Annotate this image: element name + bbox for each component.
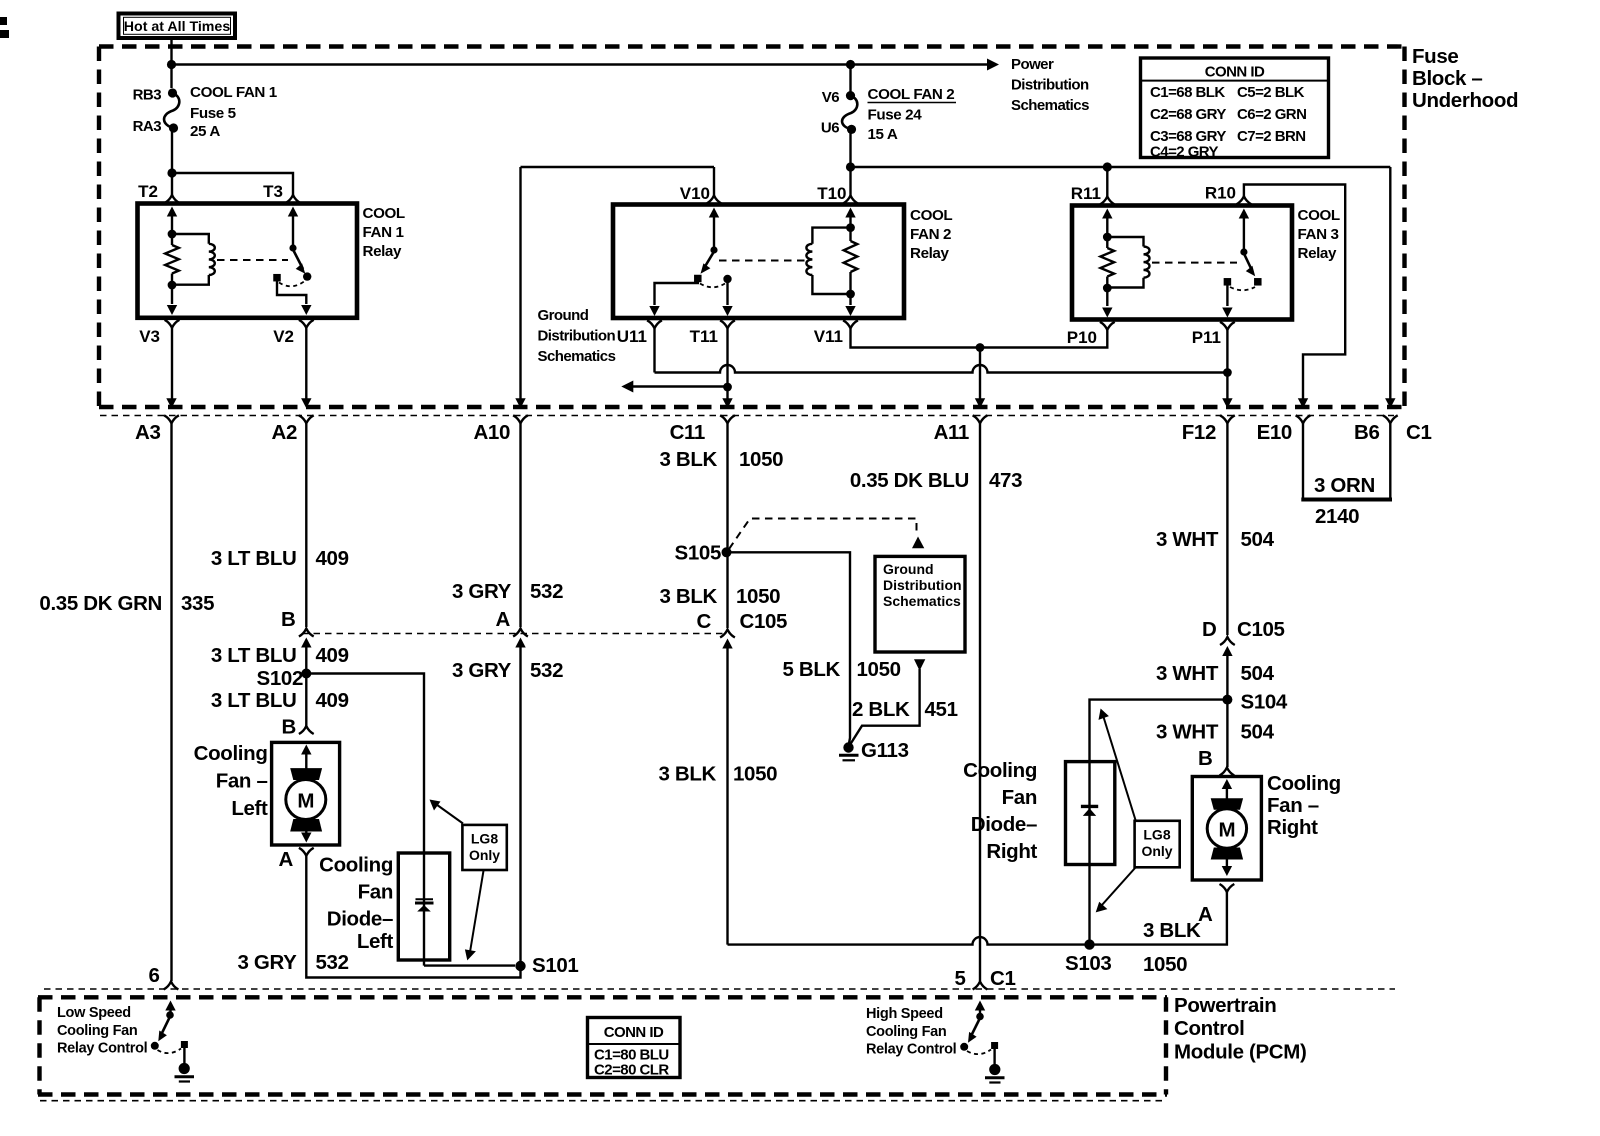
svg-text:Fan: Fan <box>358 881 393 904</box>
svg-text:1050: 1050 <box>1143 953 1187 976</box>
svg-text:3 GRY: 3 GRY <box>452 659 512 682</box>
svg-text:Ground: Ground <box>538 307 589 324</box>
svg-text:E10: E10 <box>1257 421 1292 444</box>
relay 1 switch NC contact <box>273 274 281 282</box>
svg-text:5 BLK: 5 BLK <box>783 658 841 681</box>
svg-text:B: B <box>281 608 295 631</box>
wire: A3 to PCM pin 6 (0.35 DK GRN 335) <box>170 423 172 981</box>
wire: to T10 <box>849 167 851 196</box>
wire: diode left to splice S101 <box>424 964 515 966</box>
harness thin dashed line below PCM <box>40 1100 1167 1102</box>
svg-text:C105: C105 <box>740 610 788 633</box>
arrow: to Power Distribution Schematics <box>987 59 999 71</box>
svg-text:Right: Right <box>1267 816 1318 839</box>
relay 2 output to T11 <box>726 281 728 305</box>
connector C105 dashed line <box>302 633 726 635</box>
svg-text:R11: R11 <box>1071 184 1101 203</box>
svg-text:3 BLK: 3 BLK <box>659 763 717 786</box>
pin A2 connector cup <box>299 415 314 423</box>
harness thin dashed line above PCM <box>44 988 1395 990</box>
svg-text:1050: 1050 <box>857 658 901 681</box>
svg-text:3 GRY: 3 GRY <box>237 951 297 974</box>
motor M1 armature circle <box>286 780 326 820</box>
svg-text:V11: V11 <box>814 327 843 346</box>
fan left motor arrow out <box>301 833 311 843</box>
svg-text:504: 504 <box>1241 528 1275 551</box>
svg-text:S103: S103 <box>1065 952 1111 975</box>
ground symbol bars (low speed) <box>175 1075 195 1078</box>
PCM pin 6 arrow <box>165 1001 175 1011</box>
svg-text:V10: V10 <box>680 184 710 203</box>
svg-text:15 A: 15 A <box>868 126 898 143</box>
svg-text:Underhood: Underhood <box>1412 89 1518 112</box>
wire: S102 branch through diode left <box>306 674 424 966</box>
wire: T11 down to pin C11 <box>726 328 728 404</box>
pin T11 connector cup <box>720 320 735 328</box>
svg-text:RB3: RB3 <box>133 87 162 104</box>
wire: U11-P11 ground rail with hops <box>655 365 1228 373</box>
svg-text:504: 504 <box>1241 662 1275 685</box>
pin V11 connector cup <box>843 320 858 328</box>
motor M2 armature circle <box>1207 809 1246 848</box>
fan right pin B connector cup <box>1220 768 1235 776</box>
svg-text:B: B <box>282 716 296 739</box>
relay 3 output to P11 <box>1226 284 1228 306</box>
svg-text:C1: C1 <box>990 967 1016 990</box>
low speed switch pivot <box>166 1011 174 1019</box>
wire: C105-D to splice S104 and fan right (3 WHT 504) <box>1226 654 1228 768</box>
svg-text:Cooling Fan: Cooling Fan <box>57 1023 137 1039</box>
svg-text:C3=68 GRY: C3=68 GRY <box>1150 128 1226 145</box>
svg-text:FAN 3: FAN 3 <box>1298 226 1339 243</box>
svg-text:Relay: Relay <box>910 245 949 262</box>
relay 2 coil winding loop <box>812 228 850 244</box>
svg-text:532: 532 <box>316 951 349 974</box>
svg-text:3 WHT: 3 WHT <box>1156 528 1219 551</box>
svg-text:A11: A11 <box>934 421 969 444</box>
svg-text:COOL FAN 1: COOL FAN 1 <box>190 84 278 101</box>
wire: fuse COOL FAN 2 to T10 <box>849 129 851 167</box>
junction: T2/T3 branch <box>167 168 176 177</box>
svg-text:LG8: LG8 <box>1143 827 1170 843</box>
svg-text:3 WHT: 3 WHT <box>1156 662 1219 685</box>
svg-text:COOL: COOL <box>910 207 952 224</box>
junction: rail meets P11 wire <box>1223 368 1232 377</box>
high speed switch dashed arc <box>967 1050 991 1055</box>
svg-text:Fuse: Fuse <box>1412 45 1458 68</box>
relay 1 switch pivot <box>289 244 296 251</box>
svg-text:C5=2 BLK: C5=2 BLK <box>1237 84 1305 101</box>
wire V2 to pin A2 <box>305 328 307 404</box>
pin T2 arrow into relay <box>167 207 177 217</box>
svg-text:Fan –: Fan – <box>1267 794 1319 817</box>
svg-text:Schematics: Schematics <box>1011 97 1089 114</box>
relay 2 switch contact to T11 <box>723 275 731 283</box>
relay 2 contact dashed arc <box>700 284 725 288</box>
LG8 left arrow to S101 wire (down) <box>470 871 484 952</box>
relay 2 coil bottom junction <box>846 290 855 299</box>
fan left pin A connector cup <box>299 848 314 856</box>
relay K3: COOL FAN 3 Relay box <box>1072 206 1292 320</box>
terminal U6 <box>847 125 856 134</box>
wire: fan left A to splice S101 <box>306 856 520 978</box>
pin T10 connector cup <box>843 196 858 204</box>
wire: to PCM internal ground (high) <box>993 1048 995 1064</box>
callout box: LG8 Only (right) <box>1135 821 1180 868</box>
svg-text:M: M <box>297 790 314 813</box>
high speed switch contact <box>960 1043 968 1051</box>
C105 pin C arrow <box>722 639 732 649</box>
wire: V11 to P10 link <box>851 328 981 347</box>
pin V3 connector cup <box>165 320 180 328</box>
wire: ground distribution to G113 (2 BLK 451) <box>914 659 925 671</box>
relay 1 coil top junction <box>168 230 177 239</box>
wire: pin 5 to high speed switch <box>979 1008 981 1015</box>
svg-text:FAN 2: FAN 2 <box>910 226 951 243</box>
svg-text:0.35 DK BLU: 0.35 DK BLU <box>850 469 969 492</box>
svg-text:409: 409 <box>316 689 349 712</box>
PCM pin 6 connector cup <box>164 982 179 990</box>
svg-text:RA3: RA3 <box>133 118 162 135</box>
Fuse Block - Underhood dashed enclosure <box>99 44 1405 48</box>
wire: feed rail to R11 and B6 <box>851 166 1391 168</box>
svg-text:3 LT BLU: 3 LT BLU <box>211 689 297 712</box>
svg-text:Only: Only <box>1141 843 1172 859</box>
relay 1 contact dashed arc <box>279 282 304 287</box>
relay 3 coil resistance (zigzag) <box>1101 248 1115 277</box>
pin P11 connector cup <box>1220 322 1235 330</box>
svg-text:S104: S104 <box>1241 691 1288 714</box>
svg-text:C: C <box>697 610 712 633</box>
relay 3 switch arm <box>1244 254 1253 272</box>
wire: R10 feed loop down to pin E10 <box>1244 185 1345 405</box>
relay 3 coil winding loop <box>1107 237 1143 247</box>
relay 2 switch common wire <box>713 215 715 250</box>
ground G113 symbol bars <box>839 754 859 757</box>
svg-text:25 A: 25 A <box>190 123 220 140</box>
relay 1 coil-switch dashed link <box>217 259 288 261</box>
svg-text:A: A <box>496 608 511 631</box>
svg-text:LG8: LG8 <box>471 831 498 847</box>
svg-text:Left: Left <box>231 797 268 820</box>
pin V10 connector cup <box>707 196 722 204</box>
motor M1: Cooling Fan - Left <box>272 742 340 845</box>
Powertrain Control Module (PCM) dashed enclosure <box>38 995 1167 999</box>
C105 pin B arrow <box>301 638 311 648</box>
pin P11 arrow <box>1222 308 1232 318</box>
pin E10 arrow at fuse block border <box>1298 398 1308 408</box>
svg-text:Left: Left <box>357 930 394 953</box>
svg-text:Cooling: Cooling <box>963 759 1037 782</box>
diode box: Cooling Fan Diode - Left <box>398 853 449 960</box>
svg-text:F12: F12 <box>1182 421 1216 444</box>
svg-text:Distribution: Distribution <box>883 577 962 593</box>
LG8 left arrow to diode wire (up) <box>437 805 464 824</box>
svg-text:G113: G113 <box>861 739 909 762</box>
pin P10 connector cup <box>1100 322 1115 330</box>
ground symbol bars (high speed) <box>985 1076 1005 1079</box>
svg-text:Distribution: Distribution <box>538 328 616 345</box>
ground G113 <box>843 742 853 752</box>
PCM internal ground (high speed) <box>989 1064 1000 1075</box>
wire: U11 down to rail <box>653 328 655 372</box>
motor M2 brush cap bottom <box>1211 848 1243 860</box>
svg-text:CONN ID: CONN ID <box>604 1024 664 1041</box>
wire: F12 to C105 pin D (3 WHT 504) <box>1226 423 1228 635</box>
splice S101 <box>515 961 525 971</box>
motor M2 brush cap top <box>1211 798 1243 810</box>
svg-text:V6: V6 <box>822 89 839 106</box>
wire: P11 down to pin F12 <box>1226 330 1228 404</box>
svg-text:335: 335 <box>181 592 214 615</box>
svg-text:3 LT BLU: 3 LT BLU <box>211 644 297 667</box>
pin B6 arrow at fuse block border <box>1385 398 1395 408</box>
junction: B6 feed branch <box>846 162 855 171</box>
pin U11 connector cup <box>647 320 662 328</box>
wire: to T2 <box>171 173 173 195</box>
svg-text:Powertrain: Powertrain <box>1174 994 1276 1017</box>
wire: 3 ORN 2140 loop bottom bar <box>1301 498 1392 502</box>
low speed switch dashed arc <box>158 1049 182 1054</box>
svg-text:473: 473 <box>989 469 1022 492</box>
svg-text:C2=80 CLR: C2=80 CLR <box>594 1062 669 1079</box>
pin R11 connector cup <box>1100 197 1115 205</box>
wire: branch to T3 <box>172 173 293 195</box>
wire: C105-A down to splice S101 (3 GRY 532) <box>519 645 521 962</box>
label box: Hot at All Times <box>119 14 236 39</box>
pin T3 arrow into relay <box>288 207 298 217</box>
relay 1 coil to V3 <box>171 285 173 304</box>
LG8 right arrow to diode wire (down) <box>1102 868 1136 906</box>
splice S102 <box>301 669 311 679</box>
relay 1 switch NO contact <box>303 272 311 280</box>
page edge printing marks top-left <box>0 17 7 25</box>
high speed switch ground contact <box>991 1042 998 1049</box>
svg-text:5: 5 <box>954 967 965 990</box>
LG8 right arrow to diode feed (up) <box>1104 717 1136 820</box>
svg-text:B: B <box>1198 747 1212 770</box>
svg-text:C2=68 GRY: C2=68 GRY <box>1150 106 1226 123</box>
svg-text:Block –: Block – <box>1412 67 1482 90</box>
relay 1 switch output to V2 <box>277 280 306 304</box>
wire: to R11 <box>1106 167 1108 197</box>
wire: C105-C down to ground run (3 BLK 1050) <box>726 646 728 945</box>
wire: fuse to relay 1 pins T2/T3 <box>171 128 173 173</box>
relay 2 switch contact to U11 <box>694 275 702 283</box>
svg-text:T11: T11 <box>690 327 718 346</box>
pin V2 arrow <box>301 305 311 315</box>
pin A11 connector cup <box>973 415 988 423</box>
svg-text:Hot at All Times: Hot at All Times <box>124 19 231 35</box>
diode box: Cooling Fan Diode - Right <box>1066 762 1115 865</box>
svg-text:0.35 DK GRN: 0.35 DK GRN <box>39 592 162 615</box>
pin A3 arrow at fuse block border <box>166 398 176 408</box>
relay 2 coil-switch dashed link <box>719 260 806 262</box>
terminal V6 <box>846 91 855 100</box>
svg-text:B6: B6 <box>1354 421 1380 444</box>
relay 2 output to U11 <box>655 281 698 306</box>
wire: to PCM internal ground (low) <box>183 1047 185 1063</box>
svg-text:3 ORN: 3 ORN <box>1314 474 1375 497</box>
relay 1 coil wire from T2 <box>171 214 173 234</box>
svg-text:FAN 1: FAN 1 <box>363 224 405 241</box>
motor M1 brush cap bottom <box>290 819 322 832</box>
svg-text:Right: Right <box>986 840 1037 863</box>
svg-text:Diode–: Diode– <box>971 813 1037 836</box>
svg-text:V2: V2 <box>273 327 294 346</box>
CONN ID table (PCM) <box>588 1018 681 1078</box>
pin R10 arrow into relay <box>1239 209 1249 219</box>
svg-text:Module (PCM): Module (PCM) <box>1174 1041 1306 1064</box>
svg-text:1050: 1050 <box>736 585 780 608</box>
svg-text:V3: V3 <box>139 327 160 346</box>
relay 1 coil bottom junction <box>168 281 177 290</box>
svg-text:D: D <box>1202 618 1216 641</box>
harness thin dashed line below fuse block <box>100 415 1394 417</box>
wire: A11 to PCM pin 5 (0.35 DK BLU 473) <box>979 423 981 981</box>
pin V10 arrow into relay <box>709 208 719 218</box>
relay 3 coil-switch dashed link <box>1152 262 1237 264</box>
relay 1 coil resistance (zigzag) <box>165 245 179 274</box>
PCM internal ground (low speed) <box>179 1063 190 1074</box>
C105 pin B connector cup <box>299 629 314 637</box>
high speed switch pivot <box>976 1013 984 1021</box>
wire V3 to pin A3 <box>171 328 173 404</box>
svg-text:C1=68 BLK: C1=68 BLK <box>1150 84 1225 101</box>
fuse element S-curve <box>164 93 179 128</box>
relay 1 switch common wire <box>292 214 294 248</box>
pin V3 arrow <box>167 305 177 315</box>
svg-text:P10: P10 <box>1067 328 1097 347</box>
svg-text:2 BLK: 2 BLK <box>852 698 910 721</box>
wire: S104 branch through diode right <box>1090 700 1228 945</box>
svg-text:Cooling: Cooling <box>194 742 268 765</box>
relay 3 switch common wire <box>1243 216 1245 252</box>
fuse F2: COOL FAN 2 Fuse 24 15A <box>849 65 851 96</box>
svg-text:P11: P11 <box>1192 328 1221 347</box>
svg-text:T10: T10 <box>817 184 846 203</box>
junction: power rail to fuse COOL FAN 2 <box>846 60 855 69</box>
PCM pin 5 connector cup <box>973 982 988 990</box>
wire: E10 to 3 ORN 2140 loop <box>1302 423 1304 498</box>
svg-text:COOL FAN 2: COOL FAN 2 <box>868 86 955 103</box>
CONN ID table (fuse block underhood) <box>1141 58 1329 158</box>
svg-text:CONN ID: CONN ID <box>1205 64 1265 81</box>
svg-text:3 BLK: 3 BLK <box>1143 919 1201 942</box>
svg-text:Cooling: Cooling <box>1267 772 1341 795</box>
pin B6 connector cup <box>1383 415 1398 423</box>
wire: down to pin B6 <box>1389 167 1391 404</box>
relay 3 coil to P10 <box>1106 288 1108 306</box>
pin C11 connector cup <box>720 415 735 423</box>
fan right motor arrow out <box>1222 866 1232 876</box>
pin T10 arrow into relay <box>845 208 855 218</box>
pin A3 connector cup <box>164 415 179 423</box>
svg-text:C4=2 GRY: C4=2 GRY <box>1150 144 1219 161</box>
svg-text:3 LT BLU: 3 LT BLU <box>211 547 297 570</box>
svg-text:A10: A10 <box>473 421 510 444</box>
wire: A10 to V10 link <box>521 166 715 168</box>
pin A10 connector cup <box>513 415 528 423</box>
fan right motor arrow in <box>1222 779 1232 789</box>
callout box: LG8 Only (left) <box>462 825 506 870</box>
svg-text:A: A <box>1198 903 1213 926</box>
wire: to Ground Distribution Schematics (arrow) <box>632 385 728 387</box>
svg-text:504: 504 <box>1241 721 1275 744</box>
C105 pin A arrow <box>515 638 525 648</box>
relay 2 coil resistance (zigzag) <box>844 241 858 272</box>
low speed switch contact <box>151 1042 159 1050</box>
relay 3 switch contact to P11 <box>1224 278 1232 286</box>
C105 pin D arrow <box>1222 646 1232 656</box>
svg-text:Control: Control <box>1174 1017 1244 1040</box>
low speed switch ground contact <box>181 1041 188 1048</box>
arrow: to Ground Distribution Schematics <box>621 381 633 393</box>
svg-text:Relay: Relay <box>1298 245 1337 262</box>
wire: pin 6 to low speed switch <box>169 1008 171 1013</box>
svg-text:M: M <box>1219 819 1236 842</box>
svg-text:C1: C1 <box>1406 421 1432 444</box>
relay 3 switch pivot <box>1240 248 1247 255</box>
svg-text:Schematics: Schematics <box>538 348 616 365</box>
svg-text:532: 532 <box>530 659 563 682</box>
relay 2 switch pivot <box>710 246 717 253</box>
svg-text:Ground: Ground <box>883 561 934 577</box>
PCM pin 5 arrow <box>975 1001 985 1011</box>
wire: A2 to C105 pin B (3 LT BLU 409) <box>305 423 307 627</box>
wire: feed from Hot at All Times to fuse COOL FAN 1 <box>170 38 172 88</box>
wire: S105 to G113 (5 BLK 1050) <box>727 552 851 746</box>
relay 1 coil winding loop <box>172 234 209 244</box>
svg-text:S105: S105 <box>675 542 721 565</box>
pin A10 arrow at fuse block border <box>515 398 525 408</box>
relay 1 switch arm <box>293 250 303 270</box>
fuse element S-curve <box>842 96 857 130</box>
svg-text:409: 409 <box>316 547 349 570</box>
fan left pin B connector cup <box>299 726 314 734</box>
relay 3 switch landing contact <box>1254 278 1262 286</box>
svg-text:U6: U6 <box>821 120 839 137</box>
svg-text:409: 409 <box>316 644 349 667</box>
svg-text:C7=2 BRN: C7=2 BRN <box>1237 128 1306 145</box>
svg-text:Power: Power <box>1011 56 1054 73</box>
svg-text:Diode–: Diode– <box>327 908 393 931</box>
relay K2: COOL FAN 2 Relay box <box>613 205 904 319</box>
splice S105 <box>722 547 732 557</box>
C105 pin A connector cup <box>513 629 528 637</box>
wire: C11 to C105 pin C (3 BLK 1050) <box>726 423 728 628</box>
diode CR2 (fan right) symbol <box>1081 805 1098 808</box>
dashed reference: S105 to Ground Distribution Schematics <box>729 519 917 550</box>
svg-text:Distribution: Distribution <box>1011 77 1089 94</box>
svg-text:6: 6 <box>148 964 159 987</box>
svg-text:A3: A3 <box>135 421 161 444</box>
svg-text:A2: A2 <box>271 421 297 444</box>
diode CR1 (fan left) symbol <box>416 898 434 900</box>
pin V2 connector cup <box>299 320 314 328</box>
svg-text:3 WHT: 3 WHT <box>1156 721 1219 744</box>
svg-text:3 BLK: 3 BLK <box>660 448 718 471</box>
pin E10 connector cup <box>1296 415 1311 423</box>
splice S103 <box>1084 939 1094 949</box>
Ground Distribution Schematics reference box <box>875 556 965 652</box>
junction: power rail tap <box>167 60 176 69</box>
pin P10 arrow <box>1102 308 1112 318</box>
svg-text:Schematics: Schematics <box>883 593 961 609</box>
wire: B6 to 3 ORN 2140 loop <box>1389 423 1391 498</box>
splice S104 <box>1222 695 1232 705</box>
pin F12 arrow at fuse block border <box>1222 398 1232 408</box>
